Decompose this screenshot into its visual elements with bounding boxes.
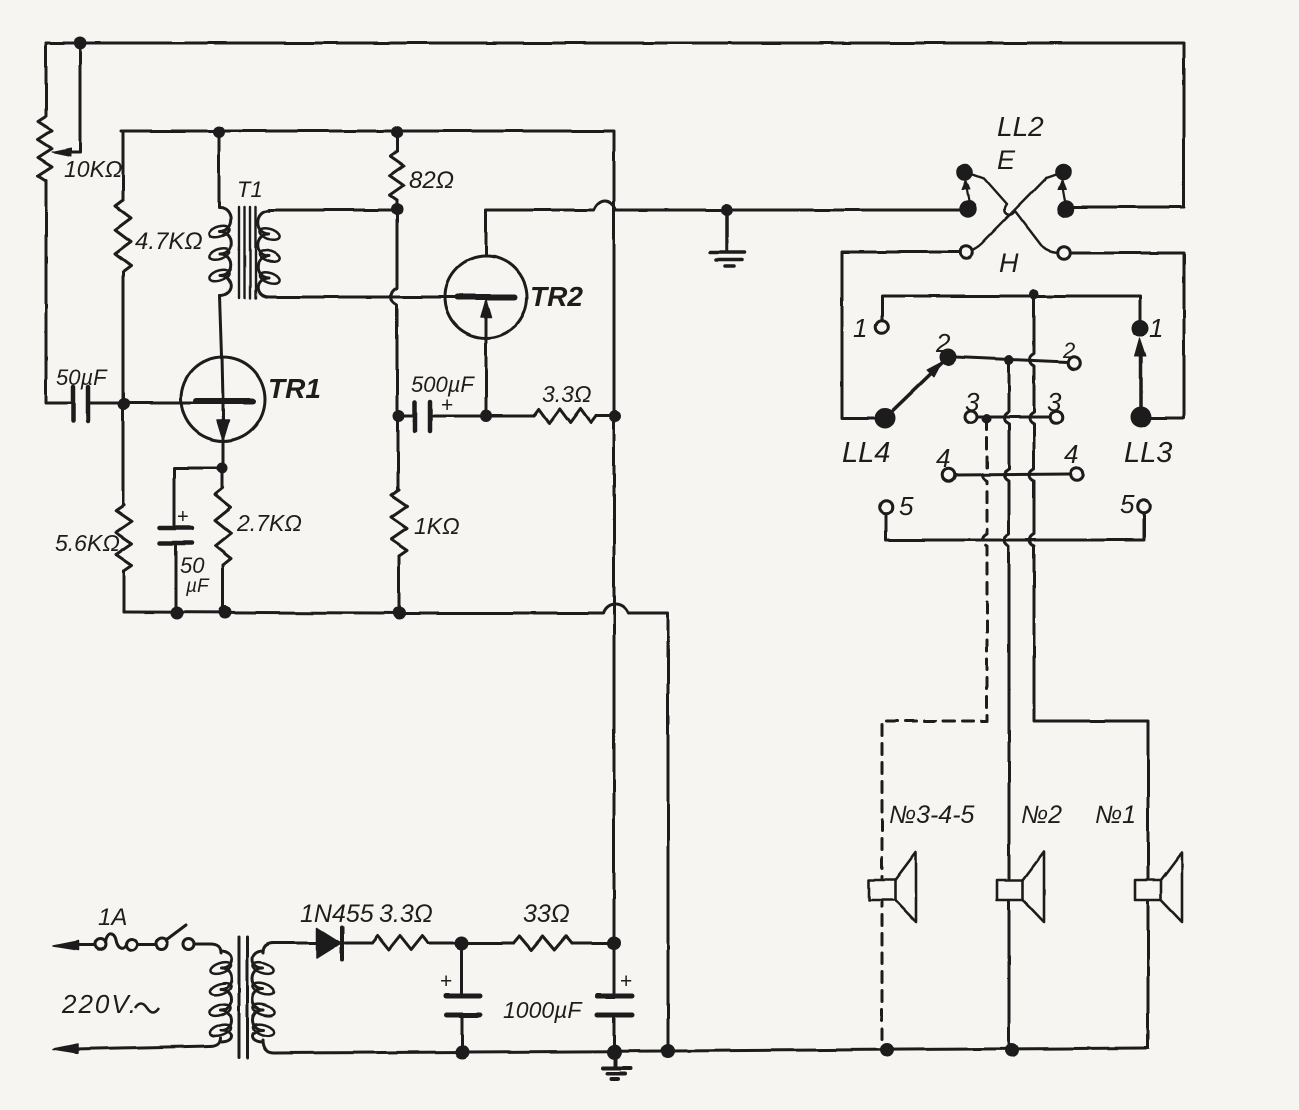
resistor 4.7K xyxy=(115,200,131,272)
svg-text:µF: µF xyxy=(185,576,210,597)
wire TR1 collector xyxy=(220,296,223,401)
wire left input column xyxy=(46,43,71,403)
node rectifier output xyxy=(455,936,469,950)
wire T1 secondary bottom to TR2 base xyxy=(269,296,458,299)
node supply column 33 ohm xyxy=(607,936,621,950)
svg-text:E: E xyxy=(997,145,1016,175)
wire position-1 bus xyxy=(882,296,1140,321)
resistor 82 ohm xyxy=(390,151,404,200)
wire filter cap 2 leads xyxy=(613,943,616,1052)
node wiper tap on top rail xyxy=(74,37,87,50)
resistor 2.7K xyxy=(215,488,231,565)
wire speaker bus to loudspeaker No1 xyxy=(1030,294,1149,1048)
svg-text:220V.: 220V. xyxy=(61,989,138,1019)
wire switch to T2 primary xyxy=(195,944,221,953)
resistor 1K xyxy=(391,490,407,556)
svg-text:LL2: LL2 xyxy=(997,111,1044,142)
svg-text:1000µF: 1000µF xyxy=(503,997,583,1023)
node bottom rail emitter return xyxy=(661,1044,675,1058)
wire TR2 emitter xyxy=(485,302,488,416)
switch LL3 xyxy=(1050,321,1151,512)
node TR2 emitter junction xyxy=(480,410,492,422)
node ground rail 1K xyxy=(393,607,406,620)
svg-text:5: 5 xyxy=(899,491,914,521)
svg-text:LL3: LL3 xyxy=(1124,437,1172,469)
node 3.3 ohm supply column xyxy=(609,410,621,422)
wire diode to resistor xyxy=(345,942,372,945)
wire LL2 H-right to LL3 wiper xyxy=(1071,253,1184,418)
svg-text:1N455: 1N455 xyxy=(300,900,374,928)
svg-text:№2: №2 xyxy=(1021,801,1062,829)
node ground rail bypass cap xyxy=(171,607,184,620)
wire T1 primary top xyxy=(218,132,221,208)
wire rail2 and long supply column xyxy=(121,131,614,943)
svg-text:LL4: LL4 xyxy=(842,437,890,469)
svg-text:82Ω: 82Ω xyxy=(409,167,454,194)
wire TR2 collector to LL2 xyxy=(486,201,960,256)
wire dashed speaker bus to loudspeaker No3-4-5 xyxy=(882,419,987,1050)
node rail2 T1 primary xyxy=(213,126,225,138)
wire T1 secondary top xyxy=(269,209,397,212)
wire AC input bottom xyxy=(74,1038,221,1049)
node position-1 bus tap xyxy=(1029,289,1039,299)
node 500uF left xyxy=(393,410,405,422)
transistor TR2 xyxy=(445,256,527,338)
svg-text:5: 5 xyxy=(1120,489,1135,519)
switch LL2 crossover xyxy=(958,165,1073,259)
svg-text:2.7KΩ: 2.7KΩ xyxy=(236,510,302,536)
wire rung 2 xyxy=(955,357,1067,362)
svg-text:+: + xyxy=(620,970,632,993)
wire rung 3 xyxy=(977,416,1049,419)
power switch xyxy=(157,925,195,950)
svg-text:T1: T1 xyxy=(237,177,263,202)
node rung3 dashed bus tap xyxy=(982,414,992,424)
wire speaker bus to loudspeaker No2 xyxy=(1005,360,1010,1050)
capacitor 500uF xyxy=(415,402,430,431)
AC input arrow top xyxy=(53,941,78,950)
node 82 ohm bottom junction xyxy=(391,203,403,215)
node TR1 base junction xyxy=(118,398,130,410)
capacitor 1000uF no2 xyxy=(597,996,632,1015)
node rung2 speaker bus tap xyxy=(1004,355,1014,365)
wire bias divider column xyxy=(123,131,124,612)
svg-text:1: 1 xyxy=(853,313,867,343)
loudspeaker No3-4-5 xyxy=(869,852,916,922)
transistor TR1 xyxy=(181,357,265,468)
node bottom rail speaker 2 xyxy=(1005,1043,1019,1057)
svg-text:1A: 1A xyxy=(98,904,127,931)
wire fuse to switch xyxy=(138,944,156,947)
wire emitter ground rail with hop xyxy=(124,604,668,1051)
svg-text:3: 3 xyxy=(1047,387,1062,417)
fuse 1A xyxy=(95,934,138,951)
capacitor 50uF input xyxy=(73,387,88,421)
node bottom rail cap1 xyxy=(455,1045,469,1059)
resistor 3.3 ohm psu xyxy=(372,936,428,950)
node rail2 82 ohm top xyxy=(391,126,403,138)
svg-text:4.7KΩ: 4.7KΩ xyxy=(135,228,203,255)
resistor 3.3 ohm emitter xyxy=(534,409,596,423)
wire AC input top xyxy=(74,944,94,947)
ground power xyxy=(603,1052,630,1079)
capacitor 50uF bypass xyxy=(160,528,192,543)
wire position-5 bus xyxy=(886,512,1144,540)
AC input arrow bottom xyxy=(53,1044,78,1053)
svg-text:3.3Ω: 3.3Ω xyxy=(542,381,591,407)
svg-text:4: 4 xyxy=(936,443,950,473)
loudspeaker No2 xyxy=(997,852,1044,922)
svg-text:3: 3 xyxy=(965,387,980,417)
resistor 5.6K xyxy=(116,505,132,571)
diode 1N455 xyxy=(272,927,342,960)
wire 82ohm column with hop over base wire xyxy=(391,209,397,416)
svg-text:4: 4 xyxy=(1064,439,1078,469)
svg-text:+: + xyxy=(440,970,452,993)
node signal ground tap xyxy=(721,204,733,216)
potentiometer 10K with wiper arrow xyxy=(38,117,52,180)
svg-text:TR1: TR1 xyxy=(268,373,321,404)
svg-text:2: 2 xyxy=(1062,338,1075,363)
wire T2 secondary top to diode xyxy=(263,943,316,953)
svg-text:+: + xyxy=(177,506,189,528)
wire LL2 H-left to LL4 wiper xyxy=(842,252,960,418)
node ground rail 2.7K xyxy=(219,606,232,619)
svg-text:3.3Ω: 3.3Ω xyxy=(379,900,433,928)
svg-text:1KΩ: 1KΩ xyxy=(414,513,460,539)
wire rung 4 xyxy=(955,474,1070,475)
svg-text:№3-4-5: №3-4-5 xyxy=(889,801,975,829)
loudspeaker No1 xyxy=(1135,852,1182,922)
svg-text:50µF: 50µF xyxy=(56,365,108,390)
ground signal xyxy=(710,210,745,266)
wire resistor to node xyxy=(428,942,614,945)
node TR1 emitter junction xyxy=(217,463,228,474)
wire TR1 emitter junction branch xyxy=(174,468,222,525)
svg-text:2: 2 xyxy=(935,328,951,358)
switch LL4 xyxy=(876,321,977,514)
wire bottom ground rail xyxy=(263,1040,1148,1053)
svg-text:TR2: TR2 xyxy=(530,281,583,312)
label 220V tilde xyxy=(135,1004,159,1013)
node bottom rail speaker 3-4-5 xyxy=(880,1043,894,1057)
wire top supply rail xyxy=(46,43,1184,207)
svg-text:10KΩ: 10KΩ xyxy=(64,156,122,182)
svg-text:1: 1 xyxy=(1149,313,1163,343)
transformer T2 power xyxy=(208,937,275,1058)
transformer T1 xyxy=(208,207,281,298)
svg-text:H: H xyxy=(999,248,1019,278)
node bottom rail cap2 xyxy=(607,1045,622,1060)
svg-text:33Ω: 33Ω xyxy=(523,900,570,928)
svg-text:50: 50 xyxy=(180,553,205,578)
svg-text:+: + xyxy=(441,394,453,417)
wire filter cap 1 leads xyxy=(461,943,464,1052)
svg-text:№1: №1 xyxy=(1095,801,1136,829)
resistor 33 ohm xyxy=(513,936,572,950)
capacitor 1000uF no1 xyxy=(446,996,480,1015)
svg-text:5.6KΩ: 5.6KΩ xyxy=(55,530,120,556)
